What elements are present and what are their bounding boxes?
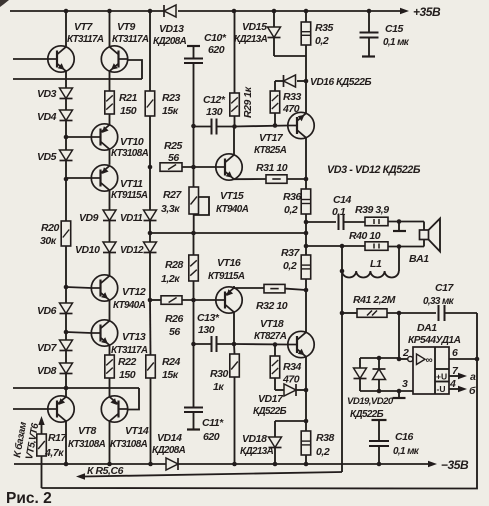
junction VD20 bottom [377,389,382,394]
wire VT18 emitter down [305,357,307,421]
resistor R26 [161,296,182,305]
resistor R41 box [357,309,387,318]
svg-text:С12*: С12* [203,94,226,106]
svg-text:30к: 30к [40,235,57,247]
svg-text:R24: R24 [162,356,181,368]
svg-text:−35В: −35В [441,458,469,472]
resistor R17 with arrow to VT5/VT6 bases [38,416,44,425]
junction pin6/feedback [475,357,480,362]
wire R40 to speaker [388,246,424,248]
svg-text:VT11: VT11 [120,178,143,190]
diode VD19 lead2 [359,379,361,392]
wire R23 to R25 node [149,116,151,167]
junction R27 bottom/mid rail [191,231,196,236]
junction VD5/VT11 base [64,177,69,182]
svg-text:+U: +U [436,372,447,382]
wire VT13 to R22 [109,345,111,355]
junction rail/VT14 [107,462,112,467]
svg-text:VD3: VD3 [37,88,57,100]
svg-text:VD18: VD18 [242,433,267,445]
junction VD12 column/R26 [148,298,153,303]
diode VD8 [60,363,73,374]
junction output/mid rail [304,231,309,236]
svg-text:R36: R36 [283,191,302,203]
junction rail/VD18 [273,462,278,467]
resistor R23 [145,91,155,116]
wire VD12 to R26 node [149,253,151,301]
diode VD6 [60,303,73,314]
wire VD chain to VT11 base [66,177,91,179]
resistor R24 [146,355,156,378]
svg-text:VD15: VD15 [242,21,267,33]
resistor R22 [105,355,115,378]
wire C11 column [193,344,195,407]
wire R22 to VT14 [109,378,111,397]
svg-text:R27: R27 [163,189,183,201]
wire R41 to C17 [387,312,436,314]
svg-text:VT16: VT16 [217,257,241,269]
junction rail/C16 [377,462,382,467]
wire VT9 top to rail [109,11,111,47]
diode VD5 [60,150,73,161]
svg-text:BA1: BA1 [409,253,429,265]
svg-text:VD3 - VD12 КД522Б: VD3 - VD12 КД522Б [327,164,421,176]
junction rail/VD15 [272,9,277,14]
svg-text:VT13: VT13 [122,331,146,343]
chassis stub at pin 3 [398,391,400,397]
junction VD8/VT8/line [64,386,69,391]
diode VD14 (in -35V rail) [166,458,178,470]
wire VD chain to VT13 base [66,332,91,333]
svg-text:R31 10: R31 10 [256,162,288,174]
svg-text:R30: R30 [210,368,229,380]
wire VT9 bottom to R21 [109,71,111,91]
svg-text:R40 10: R40 10 [349,230,381,242]
wire R26 to VT16 base [182,299,216,301]
junction rail/R29 [232,9,237,14]
wire R29 to C12 node [234,116,236,127]
svg-text:DA1: DA1 [417,322,437,334]
svg-text:VD11: VD11 [120,213,143,224]
svg-text:С11*: С11* [202,417,224,429]
lower mirror line y388 [13,387,139,389]
svg-text:б: б [469,385,476,397]
svg-text:R25: R25 [164,140,183,152]
wire VT15 emitter to R31 [234,178,266,180]
svg-text:КТ3108А: КТ3108А [111,148,149,159]
input stub to VT7 base [13,58,48,60]
wire VD7-VD8 [65,351,67,364]
transistor VT9 [101,46,127,72]
junction R32/VT18 collector [304,288,309,293]
junction R41 tap [340,311,345,316]
capacitor C14 [338,214,340,230]
resistor R29 column from rail [234,11,236,93]
wire R25 to VT15 base [182,166,216,168]
output Zobel: C14 + R39 to speaker [306,221,336,223]
diodes VD11 VD12 column [149,167,151,210]
resistor R36 [301,189,311,214]
wire VT9 base loop [128,60,142,79]
svg-text:150: 150 [120,105,137,117]
svg-text:3: 3 [402,378,408,390]
svg-text:R34: R34 [283,361,302,373]
wire VD8 to lower line [65,374,67,389]
junction rail/R24 [148,462,153,467]
bottom rail right part [179,463,431,465]
svg-text:-U: -U [437,384,446,394]
svg-text:С16: С16 [395,431,414,443]
svg-text:1,2к: 1,2к [161,273,180,285]
svg-text:R22: R22 [118,356,137,368]
mid rail y233 [150,232,306,234]
wire VT18 emitter node to VD18 [304,419,309,424]
svg-text:VD13: VD13 [159,23,184,35]
svg-text:VD6: VD6 [37,305,57,317]
svg-text:VT15: VT15 [220,190,244,202]
wire C17 to feedback right side [445,312,477,314]
diode VD19 [354,368,367,379]
svg-text:15к: 15к [162,369,179,381]
transistor VT13 [91,320,117,346]
wire R24 to bottom rail [150,378,152,464]
wire R27 to mid rail [193,214,195,233]
diode VD16 [297,80,306,82]
wire VD3-VD4 [65,99,67,111]
diode VD20 [373,368,386,370]
junction R23/R25 [148,165,153,170]
op-amp pin 4 wire with arrow to b [449,388,460,390]
junction VT17 collector/R31/R36 [304,177,309,182]
resistor R33 [270,91,280,113]
wire R31 to output column [287,178,306,180]
svg-text:R33: R33 [283,91,302,103]
wire R33 to VT17 base [274,113,276,126]
wire VD chain to VT12 base [66,287,91,288]
junction VD4/VT10 base [64,135,69,140]
svg-text:КТ3108А: КТ3108А [68,439,106,450]
wire VD pair bottom to op-amp pin 3 [360,390,413,392]
svg-text:КТ3117А: КТ3117А [112,34,149,45]
diode VD18 [274,421,276,437]
wire R37 to R32 node [305,279,307,290]
svg-text:0,1: 0,1 [332,206,346,218]
svg-text:VD4: VD4 [37,111,57,123]
diode VD9 [103,210,116,221]
wire down to C13 node [193,300,195,344]
trimmer R27 [189,187,199,214]
wire VT11 to VD9 [109,190,111,210]
junction mid rail start [148,231,153,236]
svg-text:КД522Б: КД522Б [253,406,287,417]
wire VT16 emitter to R32 [234,287,264,289]
svg-text:56: 56 [169,326,180,338]
svg-text:VT10: VT10 [120,136,144,148]
junction VD20 top [377,356,382,361]
junction VD6/VT13 base [64,330,69,335]
diode VD4 [60,110,73,121]
wire R26 node to R24 [149,300,152,355]
transistor VT12 [91,275,117,301]
outer feedback loop bottom [42,313,478,489]
wire VD15 to R35 bottom [274,55,306,57]
capacitor C11 (chassis bar bottom) [184,407,203,409]
resistor R39 [365,217,388,226]
svg-text:КД213А: КД213А [234,34,268,45]
resistor R28 [189,255,199,281]
svg-text:4,7к: 4,7к [44,447,64,459]
svg-text:0,2: 0,2 [315,35,329,47]
wire VT16 collector down [233,312,235,344]
wire VD chain to VT10 base [66,136,91,138]
svg-text:VD8: VD8 [37,365,57,377]
svg-text:0,1 мк: 0,1 мк [383,37,410,48]
resistor R29 [230,93,240,116]
svg-text:КТ940А: КТ940А [113,300,146,311]
wire R28 to R26 node [193,281,195,300]
junction L1/R41 column top [340,244,345,249]
capacitor C12 [191,124,196,129]
wire R38 to bottom rail [305,455,307,464]
wire VT15 collector to C12 node [233,127,235,155]
svg-text:0,33 мк: 0,33 мк [423,296,455,307]
svg-text:КД208А: КД208А [153,36,187,47]
svg-text:VT17: VT17 [259,132,284,144]
speaker BA1 [423,222,425,231]
R27 wiper link [194,197,209,215]
wire VD pair top [360,357,399,359]
diode VD15 [268,27,281,38]
svg-text:R23: R23 [162,92,181,104]
svg-text:R21: R21 [119,92,138,104]
wire VT18 base to R34 [274,345,276,357]
wire output column down to feedback line [341,271,343,472]
wire to R37 [305,246,307,255]
svg-text:VT18: VT18 [260,318,284,330]
inductor L1 with R41 tap column [341,246,343,271]
junction C10 column / VT15 base wire [191,165,196,170]
svg-text:С17: С17 [435,282,455,294]
junction R28 bottom/R26 wire [191,298,196,303]
diode VD11 [144,210,157,221]
op-amp inner divider [434,347,436,394]
resistor R40 [365,242,388,251]
svg-text:VD5: VD5 [37,151,57,163]
resistor R35 [301,22,311,45]
svg-text:R38: R38 [316,432,335,444]
transistor VT14 [101,396,127,422]
wire to R30 [233,344,236,354]
junction R20/VT12 base [64,285,69,290]
wire R26 left [150,299,161,301]
svg-text:КТ9115А: КТ9115А [208,271,245,282]
svg-text:КТ3117А: КТ3117А [67,34,104,45]
wire rail to R23 [149,11,151,91]
wire C12 node to VT17 base [235,126,289,127]
junction rail/VT9 [107,9,112,14]
wire VD11-VD12 [149,221,151,243]
capacitor C10 (chassis bar top) [187,45,200,47]
svg-text:Рис. 2: Рис. 2 [6,490,52,506]
wire C13 node to VT18 base [234,343,288,346]
resistor R38 [301,431,311,455]
junction R41/op-amp input [397,311,402,316]
op-amp pin 7 wire with arrow to a [449,375,460,377]
junction rail/R35 [304,9,309,14]
wire output node segment [305,222,307,246]
svg-text:VD7: VD7 [37,342,58,354]
scan corner mark [0,0,9,7]
resistor R30 [230,354,240,377]
diode VD12 [144,242,157,253]
diode VD3 [60,88,73,99]
input line to VT9 collector loop [13,78,142,80]
junction chassis stub pin3 [397,389,402,394]
diode VD7 [60,340,73,351]
wire VT8 top [65,388,67,397]
svg-text:С15: С15 [385,23,404,35]
resistor R17 [37,434,47,456]
junction speaker top [397,219,402,224]
svg-text:КТ827А: КТ827А [254,331,287,342]
wire to R20 [65,179,67,221]
svg-text:R20: R20 [41,222,60,234]
wire to R38 [305,421,307,431]
svg-text:130: 130 [198,324,215,336]
svg-text:R41 2,2М: R41 2,2М [353,294,396,306]
junction rail/C15 [367,9,372,14]
svg-text:VD10: VD10 [75,244,100,256]
svg-text:С14: С14 [333,194,352,206]
junction C13 left [191,342,196,347]
svg-text:R17: R17 [48,432,68,444]
svg-text:КТ3108А: КТ3108А [110,439,148,450]
svg-text:+35В: +35В [413,5,441,19]
svg-text:VT7: VT7 [74,21,94,33]
capacitor C16 (chassis bar top) [372,419,387,421]
junction C13/R30/VT18 base wire [232,342,237,347]
svg-text:0,2: 0,2 [316,446,330,458]
input stub to VT8 base [13,408,48,410]
wire R35/VD15 node down to VD16 node [305,56,307,81]
svg-text:R39 3,9: R39 3,9 [355,204,389,216]
junction R34/VT18 base [273,342,278,347]
svg-text:VT14: VT14 [125,425,149,437]
wire VT18 collector up [305,290,307,332]
resistor R34 [270,356,280,378]
svg-text:КТ825А: КТ825А [254,145,287,156]
junction rail/R38 [304,462,309,467]
wire VT7 emitter to VD3 [65,71,67,88]
svg-text:150: 150 [119,369,136,381]
resistor R20 [61,221,70,246]
resistor R41 [342,312,357,314]
diode VD19 lead [359,358,361,368]
svg-text:R29 1к: R29 1к [242,86,254,118]
transistor VT8 [48,396,74,422]
svg-text:0,2: 0,2 [283,260,297,272]
wire R36 to output node [305,214,307,222]
svg-text:∞: ∞ [426,355,433,366]
junction output/R40 wire [304,244,309,249]
wire to VD7 [65,332,67,340]
wire R32 to VT18 node [285,289,306,290]
wire VD6 down [65,314,67,333]
wire to R36 [305,179,307,189]
transistor VT15 [216,154,242,180]
wire op-amp output pin 6 [449,358,477,360]
capacitor C17 [438,305,440,321]
wire R20 down [65,246,67,287]
wire VT12 to VT13 [109,300,111,321]
top power rail +35V [10,10,164,12]
junction rail/R23 [148,9,153,14]
diode VD13 (in +35V rail) [163,5,165,17]
svg-text:15к: 15к [162,105,179,117]
svg-text:R37: R37 [281,247,301,259]
svg-text:130: 130 [206,106,223,118]
junction rail/VT8 [64,462,69,467]
diode VD17 [275,389,284,391]
junction rail/R30 [232,462,237,467]
resistor R21 [105,91,115,114]
inductor L1 [342,271,399,278]
svg-text:КТ9115А: КТ9115А [111,190,148,201]
svg-text:6: 6 [452,347,458,359]
svg-text:VT12: VT12 [122,286,146,298]
svg-text:КД213А: КД213А [240,446,274,457]
transistor VT11 [91,165,117,191]
svg-text:2: 2 [402,347,409,359]
wire to VD6 [65,287,67,303]
svg-text:620: 620 [203,431,220,443]
svg-text:VD19,VD20: VD19,VD20 [347,396,394,407]
wire VT8 bottom to rail [65,421,67,464]
wire rail to R35 [305,11,307,22]
wire R35 bottom [305,45,307,56]
wire VD4 down [65,121,67,138]
wire mid rail to R28 [193,233,195,255]
junction rail/VT7 [64,9,69,14]
diode VD20 lead [378,358,380,369]
resistor R32 [264,284,285,293]
wire R30 to bottom rail [234,377,236,464]
svg-text:КР544УД1А: КР544УД1А [408,335,461,346]
chassis stub at speaker [398,222,400,231]
wire C10 node down through R25 node to R27 [193,126,195,187]
transistor VT17 [288,112,314,138]
svg-text:R28: R28 [165,259,184,271]
wire VT10 to VT11 [109,149,111,165]
svg-text:КТ3117А: КТ3117А [111,345,148,356]
wire output to R40 [306,245,365,247]
wire VT14 base loop [128,388,139,410]
transistor VT18 [288,331,314,357]
svg-text:1к: 1к [213,381,224,393]
transistor VT16 [216,287,242,313]
resistor R31 [266,175,287,184]
wire VD16 to R33 [274,81,276,91]
wire VT7 collector to rail [65,11,67,47]
capacitor C15 [368,11,370,32]
svg-text:R32 10: R32 10 [256,300,288,312]
bottom power rail -35V [14,463,166,465]
svg-text:620: 620 [208,44,225,56]
svg-text:VD17: VD17 [258,393,284,405]
wire L1 right end up [398,247,400,272]
svg-text:R26: R26 [165,313,184,325]
svg-text:КД522Б: КД522Б [350,409,384,420]
